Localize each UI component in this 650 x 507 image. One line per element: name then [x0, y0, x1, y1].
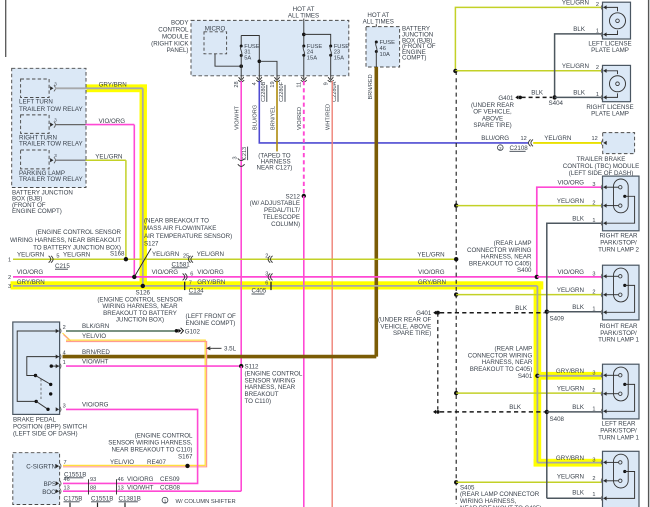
svg-text:1: 1 [592, 407, 595, 413]
svg-text:MASS AIR FLOW/INTAKE: MASS AIR FLOW/INTAKE [144, 225, 216, 232]
splice S409 [545, 310, 549, 314]
svg-text:W/ COLUMN SHIFTER: W/ COLUMN SHIFTER [176, 499, 236, 505]
svg-text:BLK/GRN: BLK/GRN [82, 323, 109, 330]
wire BLK left license to S404 [555, 34, 601, 98]
harness dashed run [455, 71, 457, 504]
svg-text:GRY/BRN: GRY/BRN [556, 368, 584, 375]
BCM pin exits [240, 76, 242, 79]
svg-text:BRN/YEL: BRN/YEL [270, 106, 276, 130]
svg-text:1: 1 [592, 218, 595, 224]
svg-text:MICRO: MICRO [205, 25, 226, 32]
svg-text:15A: 15A [307, 55, 317, 61]
wire VIO/ORG riser to lamp A [537, 187, 601, 277]
svg-text:WHT/RED: WHT/RED [326, 104, 332, 130]
svg-text:BPS: BPS [44, 481, 56, 488]
frame right edge [648, 0, 650, 507]
svg-text:RE407: RE407 [147, 459, 166, 466]
svg-text:BLK: BLK [572, 404, 585, 411]
wire YEL/GRN license feed [455, 7, 601, 71]
wire BLK lamp chain [547, 223, 601, 498]
svg-text:3: 3 [63, 403, 66, 409]
svg-text:COLUMN): COLUMN) [271, 221, 300, 228]
svg-text:VIO/WHT: VIO/WHT [127, 484, 154, 491]
fuse F23 15A [304, 34, 331, 46]
svg-text:S409: S409 [550, 316, 565, 323]
svg-text:BLK: BLK [572, 304, 585, 311]
svg-text:BLK: BLK [573, 26, 586, 33]
svg-text:PLATE LAMP: PLATE LAMP [591, 47, 629, 54]
svg-text:VIO/ORG: VIO/ORG [558, 179, 585, 186]
svg-text:C213: C213 [242, 147, 248, 160]
svg-text:WIRING HARNESS, NEAR BREAKOUT: WIRING HARNESS, NEAR BREAKOUT [10, 237, 121, 244]
svg-text:2: 2 [596, 2, 599, 8]
wire YEL/GRN row 1 [13, 258, 456, 260]
svg-text:1: 1 [596, 28, 599, 34]
note 1 w/ column shifter [162, 497, 168, 503]
svg-text:2: 2 [592, 476, 595, 482]
svg-text:S401: S401 [518, 373, 533, 380]
wire WHT/RED pin9 down [331, 81, 333, 507]
svg-text:PLATE LAMP: PLATE LAMP [591, 111, 629, 118]
svg-text:15A: 15A [334, 55, 344, 61]
svg-text:YEL/GRN: YEL/GRN [562, 0, 589, 7]
battery junction box (relays) outline [12, 68, 86, 187]
wire GRY/BRN to lamp D [537, 462, 601, 464]
trailer brake control module outline [603, 133, 635, 154]
svg-text:VIO/ORG: VIO/ORG [99, 118, 126, 125]
svg-text:TRAILER TOW RELAY: TRAILER TOW RELAY [19, 176, 83, 183]
svg-text:YEL/GRN: YEL/GRN [557, 386, 584, 393]
svg-text:TRAILER TOW RELAY: TRAILER TOW RELAY [19, 106, 83, 113]
svg-text:1: 1 [63, 360, 66, 366]
wire BRN/RED from fuse 46 [374, 67, 378, 357]
svg-text:TURN LAMP 2: TURN LAMP 2 [598, 247, 639, 254]
svg-text:GRY/BRN: GRY/BRN [197, 279, 225, 286]
svg-text:YEL/GRN: YEL/GRN [63, 251, 90, 258]
wire YEL/GRN tap to lamp C [456, 392, 601, 394]
splice S408 [545, 410, 549, 414]
inline connector ticks [88, 479, 90, 494]
svg-text:S127: S127 [144, 241, 159, 248]
svg-text:C2280A: C2280A [332, 81, 338, 101]
connector C134 tick [184, 282, 186, 290]
splice S212 [302, 194, 306, 198]
svg-text:YEL/GRN: YEL/GRN [544, 135, 571, 142]
svg-text:VIO/ORG: VIO/ORG [82, 402, 109, 409]
note (2) C2108 [498, 145, 504, 151]
svg-text:2: 2 [63, 325, 66, 331]
svg-text:YEL/GRN: YEL/GRN [95, 154, 122, 161]
body control module outline [191, 20, 349, 75]
lamp right rear park/stop/turn lamp 1 [603, 265, 640, 320]
svg-text:JUNCTION BOX): JUNCTION BOX) [116, 317, 164, 324]
svg-text:HARNESS, NEAR: HARNESS, NEAR [482, 359, 533, 366]
relay K1 left turn trailer tow relay [21, 79, 49, 98]
svg-text:S167: S167 [178, 453, 193, 460]
wire GRY/BRN from relay K1 [55, 87, 143, 89]
svg-text:3: 3 [592, 271, 595, 277]
svg-text:NEAR C127): NEAR C127) [257, 165, 293, 172]
BPP internal contacts [17, 331, 59, 401]
svg-text:YEL/GRN: YEL/GRN [557, 474, 584, 481]
svg-text:YEL/GRN: YEL/GRN [152, 251, 179, 258]
svg-text:GRY/BRN: GRY/BRN [17, 279, 45, 286]
svg-text:46: 46 [64, 477, 70, 483]
svg-text:GRY/BRN: GRY/BRN [418, 279, 446, 286]
svg-text:ALL TIMES: ALL TIMES [363, 18, 394, 25]
svg-text:7: 7 [189, 280, 192, 286]
wire VIO/ORG row 2 [13, 276, 537, 278]
svg-text:2: 2 [8, 275, 11, 281]
wire YEL/GRN tap to lamp A [456, 205, 601, 207]
svg-text:6: 6 [265, 280, 268, 286]
svg-text:BLK: BLK [515, 305, 528, 312]
svg-text:2: 2 [592, 388, 595, 394]
wire GRY/BRN S401 to lamp C [537, 375, 601, 377]
lamp left rear park/stop/turn lamp 1 [603, 364, 640, 419]
node YEL/GRN taps [454, 203, 458, 207]
svg-text:3: 3 [8, 284, 11, 290]
splice S112 [239, 364, 243, 368]
svg-text:PANEL): PANEL) [167, 47, 189, 54]
svg-text:2: 2 [592, 200, 595, 206]
svg-text:YEL/GRN: YEL/GRN [557, 198, 584, 205]
svg-text:VIO/ORG: VIO/ORG [418, 269, 445, 276]
svg-text:VIO/RED: VIO/RED [297, 107, 303, 130]
svg-text:AIR TEMPERATURE SENSOR): AIR TEMPERATURE SENSOR) [144, 233, 232, 240]
svg-text:S404: S404 [549, 100, 564, 107]
svg-text:1: 1 [164, 498, 167, 503]
svg-text:BLK: BLK [572, 490, 585, 497]
svg-text:S400: S400 [517, 267, 532, 274]
svg-text:93: 93 [90, 477, 96, 483]
lamp left license plate lamp [603, 2, 631, 39]
svg-text:7: 7 [64, 460, 67, 466]
wire micro to fuse 31 [215, 54, 241, 66]
svg-text:VIO/ORG: VIO/ORG [127, 476, 154, 483]
svg-text:SPARE TIRE): SPARE TIRE) [393, 330, 431, 337]
svg-text:4: 4 [63, 351, 66, 357]
svg-text:19: 19 [270, 81, 276, 87]
svg-text:9: 9 [324, 82, 330, 85]
svg-text:10A: 10A [380, 52, 390, 58]
ground G102 [178, 329, 181, 333]
svg-text:YEL/VIO: YEL/VIO [110, 459, 134, 466]
svg-text:BOO: BOO [42, 489, 56, 496]
frame left edge [5, 0, 7, 57]
svg-text:VIO/ORG: VIO/ORG [197, 269, 224, 276]
svg-text:2: 2 [592, 289, 595, 295]
wire VIO/RED below S212 [303, 196, 305, 507]
svg-text:C-SIGRTN: C-SIGRTN [26, 463, 56, 470]
S127 pointer line [134, 249, 151, 277]
svg-text:1: 1 [8, 257, 11, 263]
splice S401 [535, 374, 539, 378]
svg-text:12: 12 [521, 136, 527, 142]
svg-text:28: 28 [234, 81, 240, 87]
svg-text:TURN LAMP 1: TURN LAMP 1 [598, 337, 639, 344]
svg-text:BRN/RED: BRN/RED [368, 74, 374, 99]
wire YEL/GRN tap to lamp D [456, 481, 601, 483]
svg-text:3: 3 [592, 457, 595, 463]
svg-text:TRAILER TOW RELAY: TRAILER TOW RELAY [19, 140, 83, 147]
svg-text:COMPT): COMPT) [402, 55, 426, 62]
ground G401 dashed drop [437, 313, 439, 410]
svg-text:S408: S408 [550, 416, 565, 423]
splice S126 [141, 284, 145, 288]
svg-text:BLK: BLK [573, 90, 586, 97]
svg-text:ALL TIMES: ALL TIMES [288, 13, 319, 20]
splice S400 [535, 275, 539, 279]
lamp right license plate lamp [603, 65, 631, 101]
splice S168 [124, 257, 128, 261]
svg-text:YEL/GRN: YEL/GRN [417, 251, 444, 258]
svg-text:GRY/BRN: GRY/BRN [99, 82, 127, 89]
svg-text:CES09: CES09 [160, 476, 180, 483]
svg-text:4: 4 [252, 82, 258, 85]
svg-text:S168: S168 [110, 251, 125, 258]
wire YEL/GRN from relay K3 [55, 159, 86, 161]
wire GRY/BRN row 3 [13, 285, 537, 287]
svg-text:5: 5 [56, 254, 59, 260]
wire VIO/WHT BPP pin1 [66, 365, 241, 367]
svg-text:46: 46 [118, 477, 124, 483]
svg-text:3.5L: 3.5L [224, 346, 237, 353]
svg-text:1: 1 [596, 92, 599, 98]
svg-text:5A: 5A [244, 55, 251, 61]
highlight GRY/BRN circuit [87, 84, 147, 92]
wire BLU/ORG pin4 [259, 81, 528, 143]
svg-text:13: 13 [118, 485, 124, 491]
svg-text:ENGINE COMPT): ENGINE COMPT) [186, 320, 236, 327]
svg-text:GRY/BRN: GRY/BRN [556, 455, 584, 462]
svg-text:YEL/GRN: YEL/GRN [17, 251, 44, 258]
svg-text:TO C110): TO C110) [245, 398, 272, 405]
svg-text:C2280B: C2280B [261, 81, 267, 101]
svg-text:1: 1 [592, 492, 595, 498]
3.5L pointer [207, 347, 212, 350]
wire GRY/BRN riser [536, 286, 538, 463]
svg-text:3: 3 [592, 182, 595, 188]
wire YEL/VIO BPP to C-SIGRTN [63, 333, 71, 340]
svg-text:BLU/ORG: BLU/ORG [481, 135, 509, 142]
svg-text:BLU/ORG: BLU/ORG [253, 105, 259, 130]
relay K3 parking lamp trailer tow relay [21, 150, 49, 169]
wire VIO/WHT pin28 down [240, 81, 242, 366]
svg-text:G102: G102 [185, 328, 201, 335]
TBC module row: BLU/ORG to YEL/GRN [529, 140, 531, 147]
svg-text:(LEFT SIDE OF DASH): (LEFT SIDE OF DASH) [13, 430, 78, 437]
svg-text:YEL/VIO: YEL/VIO [82, 333, 106, 340]
svg-text:12: 12 [592, 136, 598, 142]
svg-text:LEFT TURN: LEFT TURN [19, 99, 53, 106]
svg-text:C2280F: C2280F [279, 81, 285, 101]
wire BLK/GRN BPP pin2 to G102 [66, 330, 176, 332]
junction VIO/ORG relay K2 feed [132, 275, 136, 279]
svg-text:VIO/ORG: VIO/ORG [152, 269, 179, 276]
lamp right rear park/stop/turn lamp 2 [603, 176, 640, 231]
svg-text:BRN/RED: BRN/RED [82, 349, 110, 356]
svg-text:3: 3 [592, 371, 595, 377]
svg-text:(ENGINE CONTROL SENSOR: (ENGINE CONTROL SENSOR [36, 229, 122, 236]
wire VIO/WHT S112 to BOO [240, 366, 242, 491]
svg-text:11: 11 [297, 82, 303, 88]
node license feed junction [453, 69, 457, 73]
relay K2 right turn trailer tow relay [21, 115, 49, 133]
wire BRN/YEL pin19 (taped to harness) [276, 81, 278, 151]
battery junction box (fuse 46) outline [366, 27, 400, 67]
svg-text:C2108: C2108 [510, 145, 529, 152]
fuse F46 10A [375, 41, 378, 44]
brake pedal position switch outline [13, 322, 60, 414]
BPP pins [56, 329, 59, 333]
svg-text:YEL/GRN: YEL/GRN [562, 63, 589, 70]
splice S167 [185, 464, 189, 468]
lamp left rear park/stop/turn lamp 2 (bottom) [603, 451, 640, 507]
svg-text:VIO/ORG: VIO/ORG [17, 269, 44, 276]
svg-text:3: 3 [233, 156, 239, 159]
splice S404 [552, 95, 556, 99]
svg-text:1: 1 [592, 306, 595, 312]
svg-text:88: 88 [90, 485, 96, 491]
wire VIO/ORG S400 to lamp B [537, 276, 601, 278]
svg-text:2: 2 [596, 65, 599, 71]
wire VIO/ORG from relay K2 [55, 124, 86, 126]
wire fuse31 top branch to pin4/pin19 [241, 36, 259, 76]
svg-text:ENGINE COMPT): ENGINE COMPT) [12, 208, 62, 215]
svg-text:BLK: BLK [509, 404, 522, 411]
svg-text:2: 2 [499, 146, 502, 151]
svg-text:VIO/ORG: VIO/ORG [558, 269, 585, 276]
svg-text:VIO/WHT: VIO/WHT [82, 358, 109, 365]
fuse F24 15A [302, 45, 305, 48]
connector C1581 [189, 256, 191, 263]
wire BLK to lamp D [547, 497, 601, 499]
svg-text:VIO/WHT: VIO/WHT [235, 105, 241, 130]
svg-text:YEL/GRN: YEL/GRN [197, 251, 224, 258]
wire VIO/ORG BPP pin3 to BPS [63, 409, 198, 483]
svg-text:BLK: BLK [572, 216, 585, 223]
svg-text:SPARE TIRE): SPARE TIRE) [473, 122, 511, 129]
svg-text:6: 6 [190, 271, 193, 277]
svg-text:YEL/GRN: YEL/GRN [557, 287, 584, 294]
svg-text:13: 13 [64, 485, 70, 491]
svg-text:TURN LAMP 1: TURN LAMP 1 [598, 434, 639, 441]
svg-text:BLK: BLK [531, 90, 544, 97]
fuse F31 5A [240, 36, 242, 47]
svg-text:CCB08: CCB08 [160, 484, 181, 491]
wire YEL/GRN tap to lamp B [456, 294, 601, 296]
svg-text:TO BATTERY JUNCTION BOX): TO BATTERY JUNCTION BOX) [33, 244, 121, 251]
wire VIO/RED pin11 dashed to S212 [303, 81, 305, 196]
svg-text:(NEAR BREAKOUT TO: (NEAR BREAKOUT TO [144, 218, 209, 225]
connector C405 tick [270, 282, 272, 290]
module with C-SIGRTN BPS BOO outline [13, 453, 60, 505]
